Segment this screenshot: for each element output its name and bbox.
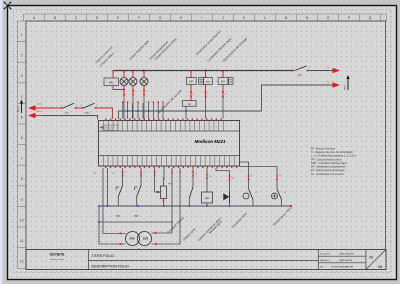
svg-text:2: 2 bbox=[144, 173, 145, 175]
svg-text:8: 8 bbox=[144, 128, 145, 130]
rotary button BT2 bbox=[137, 186, 141, 197]
sheet corner registration cross mark bbox=[4, 2, 12, 10]
svg-text:6: 6 bbox=[135, 91, 136, 93]
svg-text:2: 2 bbox=[76, 105, 77, 107]
svg-text:BT1: BT1 bbox=[116, 216, 121, 218]
svg-text:9: 9 bbox=[149, 128, 150, 130]
svg-text:BT2: BT2 bbox=[135, 216, 140, 218]
wire C2 to rail bbox=[281, 200, 283, 207]
svg-text:1: 1 bbox=[21, 33, 23, 37]
svg-text:24V: 24V bbox=[129, 237, 134, 241]
svg-text:24Vcc: 24Vcc bbox=[345, 84, 347, 90]
wire PLC input to RP1 wiper bbox=[154, 168, 156, 192]
svg-text:16: 16 bbox=[209, 176, 211, 178]
wire lamp H2 down bbox=[132, 86, 134, 98]
svg-text:TITRE FOLIO: TITRE FOLIO bbox=[92, 254, 115, 258]
wire PLC input to sensor C1 bbox=[240, 162, 249, 189]
PLC top pin marks bbox=[105, 118, 221, 120]
svg-text:1: 1 bbox=[125, 173, 126, 175]
svg-text:03: 03 bbox=[369, 256, 373, 260]
PLC top terminal row bbox=[99, 130, 240, 132]
drawing area inner border bbox=[26, 21, 386, 250]
PLC pin numbers top bbox=[105, 128, 216, 130]
svg-text:NOM DESSINATEUR: NOM DESSINATEUR bbox=[332, 266, 354, 269]
wire EV1 to PLC output bbox=[222, 84, 224, 97]
wire stub bus to lamp H2 bbox=[132, 71, 134, 78]
svg-text:6: 6 bbox=[134, 162, 135, 164]
svg-text:M: M bbox=[285, 16, 288, 20]
svg-text:4: 4 bbox=[173, 128, 174, 130]
svg-text:7: 7 bbox=[146, 91, 147, 93]
wire PLC to input rail bbox=[107, 168, 109, 206]
contactor coil KMT1 bbox=[199, 78, 204, 85]
wire PLC input to sensor B1 bbox=[216, 168, 230, 192]
wire lamp columns to PLC outputs bbox=[124, 97, 144, 119]
svg-text:EV : Electrovanne de blocage: EV : Electrovanne de blocage bbox=[311, 168, 345, 172]
svg-text:10V: 10V bbox=[143, 237, 148, 241]
PLC supply arrow icon bbox=[100, 126, 104, 129]
start switch S1 bbox=[189, 187, 193, 198]
svg-text:3: 3 bbox=[81, 105, 82, 107]
svg-text:4: 4 bbox=[125, 162, 126, 164]
indicator lamp H3 bbox=[140, 78, 148, 86]
rotary button BT1 bbox=[118, 186, 122, 197]
svg-text:24Vcc: 24Vcc bbox=[18, 106, 20, 112]
svg-text:4: 4 bbox=[21, 95, 23, 99]
wire RP1 bottom to rail bbox=[163, 199, 165, 207]
svg-text:9: 9 bbox=[207, 94, 208, 96]
folio destination arrow 0V right bbox=[333, 82, 341, 87]
valve aux box bbox=[229, 78, 233, 85]
svg-text:SCHNEIDER: SCHNEIDER bbox=[105, 129, 113, 131]
svg-text:DATE MODIF: DATE MODIF bbox=[339, 259, 353, 262]
svg-text:8: 8 bbox=[193, 94, 194, 96]
svg-text:0Vcc: 0Vcc bbox=[37, 111, 41, 113]
svg-text:B: B bbox=[54, 16, 56, 20]
wire bus to folio arrow right bbox=[308, 70, 333, 72]
svg-text:Par :: Par : bbox=[320, 266, 325, 269]
svg-text:3: 3 bbox=[21, 74, 23, 78]
wire 0V return rail bbox=[119, 111, 262, 119]
svg-text:24Vcc: 24Vcc bbox=[37, 104, 43, 106]
svg-text:22: 22 bbox=[279, 175, 281, 177]
svg-text:adresse société: adresse société bbox=[50, 258, 65, 261]
svg-text:6: 6 bbox=[231, 162, 232, 164]
PLC reference label plate bbox=[104, 125, 118, 131]
svg-text:PP: PP bbox=[205, 197, 209, 201]
potentiometer RP1 wiper arrow bbox=[155, 191, 159, 193]
acoustic sensor B1 bbox=[223, 193, 229, 200]
svg-text:EV: EV bbox=[221, 80, 225, 84]
svg-text:-KM1: -KM1 bbox=[84, 112, 90, 114]
svg-text:10: 10 bbox=[20, 218, 24, 222]
svg-text:11: 11 bbox=[20, 239, 24, 243]
potentiometer RP1 bbox=[161, 186, 167, 199]
wire stub bus to buzzer HA1 bbox=[112, 71, 114, 79]
folio source arrow 24V left bbox=[28, 105, 36, 110]
potential up-arrow right 24V bbox=[346, 75, 349, 90]
svg-text:Modicon M221: Modicon M221 bbox=[194, 139, 226, 144]
legend abbreviation list bbox=[311, 147, 357, 176]
current amplifier A1 bbox=[182, 101, 196, 107]
svg-text:BT : Bouton Tournant: BT : Bouton Tournant bbox=[311, 147, 335, 151]
svg-text:HA1: HA1 bbox=[109, 81, 114, 84]
svg-text:9: 9 bbox=[149, 162, 150, 164]
wire PLC input to BT2 bbox=[140, 168, 142, 186]
folio destination arrow 24V right bbox=[333, 68, 341, 73]
wire stub bus to DP1 bbox=[190, 71, 192, 78]
wire transformer secondary top to PLC analog bbox=[152, 168, 173, 233]
wire RP1 top to PLC bbox=[163, 180, 165, 186]
wire C1 to rail bbox=[252, 200, 254, 207]
svg-text:A1 : amplificateur de courant: A1 : amplificateur de courant bbox=[311, 172, 344, 176]
PLC bottom terminal row bbox=[99, 155, 240, 157]
svg-text:KMT : Contacteur Montée Tapis: KMT : Contacteur Montée Tapis bbox=[311, 161, 347, 165]
buzzer HA1 bbox=[104, 78, 119, 86]
wire PLC input to BT1 bbox=[122, 168, 124, 186]
svg-text:10: 10 bbox=[225, 94, 227, 96]
wire PLC to transformer primary top bbox=[103, 168, 126, 234]
svg-text:14: 14 bbox=[195, 174, 197, 176]
wire lamp H3 down bbox=[143, 86, 145, 98]
svg-text:9: 9 bbox=[21, 198, 23, 202]
svg-text:4: 4 bbox=[125, 128, 126, 130]
svg-text:DP: DP bbox=[189, 80, 193, 84]
wire 0V return to folio arrow right bbox=[262, 85, 333, 111]
wire PLC input to PP1 bbox=[206, 168, 208, 192]
wire stub bus to lamp H3 bbox=[143, 71, 145, 78]
svg-text:L: L bbox=[264, 16, 266, 20]
svg-text:4: 4 bbox=[173, 162, 174, 164]
svg-text:DP : Distributeur proportionne: DP : Distributeur proportionnel bbox=[311, 165, 346, 169]
svg-text:-SA1: -SA1 bbox=[297, 74, 303, 77]
wire BT1 to rail bbox=[117, 197, 119, 207]
wire B1 to rail bbox=[229, 203, 231, 206]
svg-text:L : u x 4 différentes position: L : u x 4 différentes positions 1, 2, 3 … bbox=[311, 154, 357, 158]
svg-text:4: 4 bbox=[96, 105, 97, 107]
svg-text:06: 06 bbox=[378, 265, 382, 269]
svg-text:I: I bbox=[202, 16, 203, 20]
svg-text:1: 1 bbox=[60, 105, 61, 107]
svg-text:F: F bbox=[138, 16, 140, 20]
solenoid valve EV1 bbox=[218, 78, 228, 85]
svg-text:PP : Calcul présence pièce: PP : Calcul présence pièce bbox=[311, 157, 342, 161]
wire stub bus to KMT1 bbox=[205, 71, 207, 78]
svg-text:3: 3 bbox=[168, 162, 169, 164]
svg-text:4: 4 bbox=[222, 162, 223, 164]
svg-text:KMT: KMT bbox=[206, 82, 211, 84]
wire A1 to PLC output bbox=[185, 106, 187, 119]
PLC controller U1 body bbox=[99, 121, 240, 167]
selector switch SA1 bbox=[295, 66, 307, 71]
wire indicator bus 24V bbox=[113, 70, 293, 72]
wire DP1 to amplifier A1 bbox=[190, 84, 192, 100]
wire 24V supply bbox=[36, 107, 63, 109]
svg-text:Modifié le :: Modifié le : bbox=[320, 260, 331, 262]
breaker contact QF1 bbox=[63, 103, 74, 108]
title block dividers bbox=[89, 250, 366, 270]
column reference strip (A-Q) bbox=[24, 14, 387, 21]
wire PP1 to rail bbox=[206, 203, 208, 206]
svg-text:1: 1 bbox=[292, 67, 293, 69]
svg-text:8: 8 bbox=[21, 177, 23, 181]
wire S1 to rail bbox=[188, 198, 190, 206]
wire stub bus to EV1 bbox=[222, 71, 224, 78]
presence sensor PP1 bbox=[202, 192, 213, 203]
indicator lamp H1 bbox=[120, 78, 128, 86]
svg-text:12: 12 bbox=[20, 260, 24, 264]
potential up-arrow left 24V bbox=[20, 100, 23, 114]
transformer T1 bbox=[126, 232, 140, 246]
svg-text:5: 5 bbox=[126, 95, 127, 97]
svg-text:DESCRIPTION FOLIO: DESCRIPTION FOLIO bbox=[92, 264, 129, 268]
title block outline bbox=[26, 250, 386, 270]
folio source arrow 0V left bbox=[28, 113, 36, 118]
indicator lamp H2 bbox=[129, 78, 137, 86]
svg-text:20: 20 bbox=[251, 175, 253, 177]
svg-text:E: E bbox=[117, 16, 119, 20]
wire stub bus to lamp H1 bbox=[123, 71, 125, 78]
svg-text:Dessiné le :: Dessiné le : bbox=[320, 253, 332, 255]
proximity sensor C1 bbox=[243, 193, 249, 199]
PLC pin numbers bottom bbox=[105, 162, 237, 164]
svg-text:C : Capteurs de porte du vérin: C : Capteurs de porte du vérin(câble) bbox=[311, 150, 353, 154]
svg-text:6: 6 bbox=[21, 136, 23, 140]
svg-text:3: 3 bbox=[120, 128, 121, 130]
svg-text:2: 2 bbox=[309, 67, 310, 69]
svg-text:18: 18 bbox=[232, 178, 234, 180]
row reference strip (1-12) bbox=[18, 21, 27, 269]
wire HA1/H1 collector bbox=[113, 86, 124, 90]
svg-text:3: 3 bbox=[216, 128, 217, 130]
wire rail to transformer primary bottom bbox=[99, 206, 126, 244]
svg-text:-QF1: -QF1 bbox=[64, 112, 70, 114]
title block folio number cell bbox=[366, 250, 386, 270]
svg-text:7: 7 bbox=[21, 157, 23, 161]
svg-text:8: 8 bbox=[192, 128, 193, 130]
wire output common columns bbox=[123, 103, 163, 119]
proportional valve DP1 bbox=[186, 78, 196, 85]
svg-text:DATE DESSIN: DATE DESSIN bbox=[339, 252, 354, 255]
wire KMT1 to PLC output bbox=[205, 84, 207, 97]
input common rail bbox=[99, 205, 291, 207]
svg-text:9: 9 bbox=[197, 162, 198, 164]
svg-text:5: 5 bbox=[21, 115, 23, 119]
wire transformer secondary bottom to PLC analog bbox=[152, 168, 181, 244]
svg-text:TM221CE40R: TM221CE40R bbox=[105, 127, 115, 129]
wire PLC input to sensor C2 bbox=[240, 167, 278, 190]
svg-text:6: 6 bbox=[183, 162, 184, 164]
window left edge strip bbox=[0, 0, 3, 284]
PLC bottom pin marks bbox=[105, 166, 237, 168]
temperature sensor C2 bbox=[272, 193, 278, 199]
svg-text:9: 9 bbox=[197, 128, 198, 130]
wire 24V to PLC supply pin bbox=[96, 108, 113, 119]
wire PLC input to start switch bbox=[192, 168, 194, 187]
wire 0V supply to PLC bbox=[36, 115, 44, 117]
svg-text:P: P bbox=[348, 16, 350, 20]
wire BT2 to rail bbox=[136, 197, 138, 207]
analog common rail bbox=[99, 221, 172, 223]
wire between contacts bbox=[76, 107, 83, 109]
svg-text:SOCIETE: SOCIETE bbox=[50, 253, 66, 257]
svg-text:2: 2 bbox=[21, 54, 23, 58]
svg-text:3: 3 bbox=[168, 128, 169, 130]
contactor contact KM1 bbox=[84, 103, 95, 108]
